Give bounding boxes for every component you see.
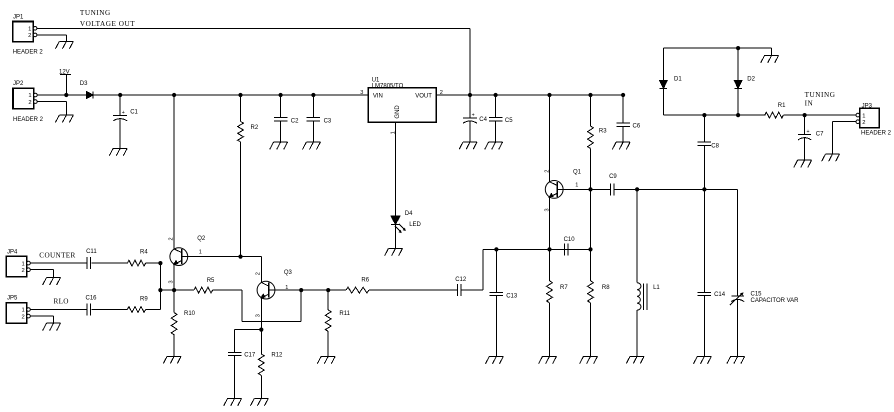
svg-text:L1: L1 <box>653 285 660 291</box>
svg-text:LM7805/TO: LM7805/TO <box>372 83 404 89</box>
svg-text:R12: R12 <box>271 352 283 358</box>
svg-text:2: 2 <box>28 100 31 106</box>
svg-text:C10: C10 <box>564 237 576 243</box>
svg-text:1: 1 <box>28 27 31 33</box>
svg-text:+: + <box>807 129 810 135</box>
svg-text:R2: R2 <box>251 125 259 131</box>
svg-text:HEADER 2: HEADER 2 <box>861 130 892 136</box>
svg-text:R4: R4 <box>140 250 148 256</box>
svg-text:C7: C7 <box>816 131 824 137</box>
svg-text:HEADER 2: HEADER 2 <box>13 117 44 123</box>
svg-text:D4: D4 <box>405 211 413 217</box>
svg-text:D3: D3 <box>80 81 88 87</box>
svg-text:R9: R9 <box>140 296 148 302</box>
svg-text:VIN: VIN <box>373 93 383 99</box>
svg-text:2: 2 <box>544 170 550 173</box>
svg-text:VOUT: VOUT <box>415 93 432 99</box>
svg-text:CAPACITOR VAR: CAPACITOR VAR <box>751 298 800 304</box>
svg-text:1: 1 <box>862 113 865 119</box>
svg-text:C1: C1 <box>130 110 138 116</box>
svg-text:2: 2 <box>28 33 31 39</box>
svg-text:C12: C12 <box>455 277 467 283</box>
svg-text:D2: D2 <box>747 76 755 82</box>
svg-text:C13: C13 <box>506 293 518 299</box>
svg-text:R8: R8 <box>602 285 610 291</box>
svg-text:3: 3 <box>360 90 363 96</box>
svg-text:C14: C14 <box>714 292 726 298</box>
svg-text:+: + <box>472 112 475 118</box>
svg-text:RLO: RLO <box>54 298 69 306</box>
svg-text:R3: R3 <box>599 129 607 135</box>
svg-text:1: 1 <box>22 308 25 314</box>
svg-text:1: 1 <box>28 93 31 99</box>
svg-text:+: + <box>122 110 125 116</box>
svg-text:R11: R11 <box>339 311 350 317</box>
svg-text:D1: D1 <box>674 76 682 82</box>
svg-text:1: 1 <box>575 183 578 189</box>
svg-text:TUNING: TUNING <box>80 9 111 17</box>
svg-text:TUNING: TUNING <box>805 91 836 99</box>
svg-text:JP1: JP1 <box>13 15 24 21</box>
svg-text:LED: LED <box>409 222 421 228</box>
svg-text:2: 2 <box>256 272 262 275</box>
svg-text:C3: C3 <box>324 118 332 124</box>
svg-text:1: 1 <box>22 261 25 267</box>
svg-text:VOLTAGE OUT: VOLTAGE OUT <box>80 20 135 28</box>
svg-text:C6: C6 <box>633 123 641 129</box>
svg-text:COUNTER: COUNTER <box>39 251 75 259</box>
svg-text:3: 3 <box>256 314 262 317</box>
svg-text:JP2: JP2 <box>13 81 24 87</box>
svg-text:C2: C2 <box>291 118 299 124</box>
svg-text:R7: R7 <box>560 285 568 291</box>
svg-text:R10: R10 <box>184 311 196 317</box>
svg-text:C17: C17 <box>244 352 256 358</box>
svg-text:R1: R1 <box>778 103 786 109</box>
svg-text:C4: C4 <box>479 117 487 123</box>
svg-text:C16: C16 <box>86 296 98 302</box>
svg-text:2: 2 <box>22 314 25 320</box>
svg-text:Q2: Q2 <box>197 236 206 242</box>
svg-text:IN: IN <box>805 99 814 107</box>
svg-text:Q1: Q1 <box>573 169 582 175</box>
svg-text:1: 1 <box>199 249 202 255</box>
svg-text:C8: C8 <box>711 143 719 149</box>
svg-text:JP3: JP3 <box>862 103 873 109</box>
svg-text:3: 3 <box>168 280 174 283</box>
svg-text:R6: R6 <box>361 277 369 283</box>
svg-text:R5: R5 <box>207 278 215 284</box>
svg-text:C9: C9 <box>609 174 617 180</box>
svg-text:C5: C5 <box>505 118 513 124</box>
svg-text:JP5: JP5 <box>7 296 18 302</box>
svg-text:JP4: JP4 <box>7 249 18 255</box>
svg-text:2: 2 <box>862 120 865 126</box>
svg-text:Q3: Q3 <box>284 270 293 276</box>
svg-text:HEADER 2: HEADER 2 <box>13 49 44 55</box>
svg-text:C15: C15 <box>751 291 763 297</box>
svg-text:GND: GND <box>395 105 401 119</box>
svg-text:2: 2 <box>168 237 174 240</box>
svg-text:C11: C11 <box>86 249 97 255</box>
svg-text:2: 2 <box>22 268 25 274</box>
